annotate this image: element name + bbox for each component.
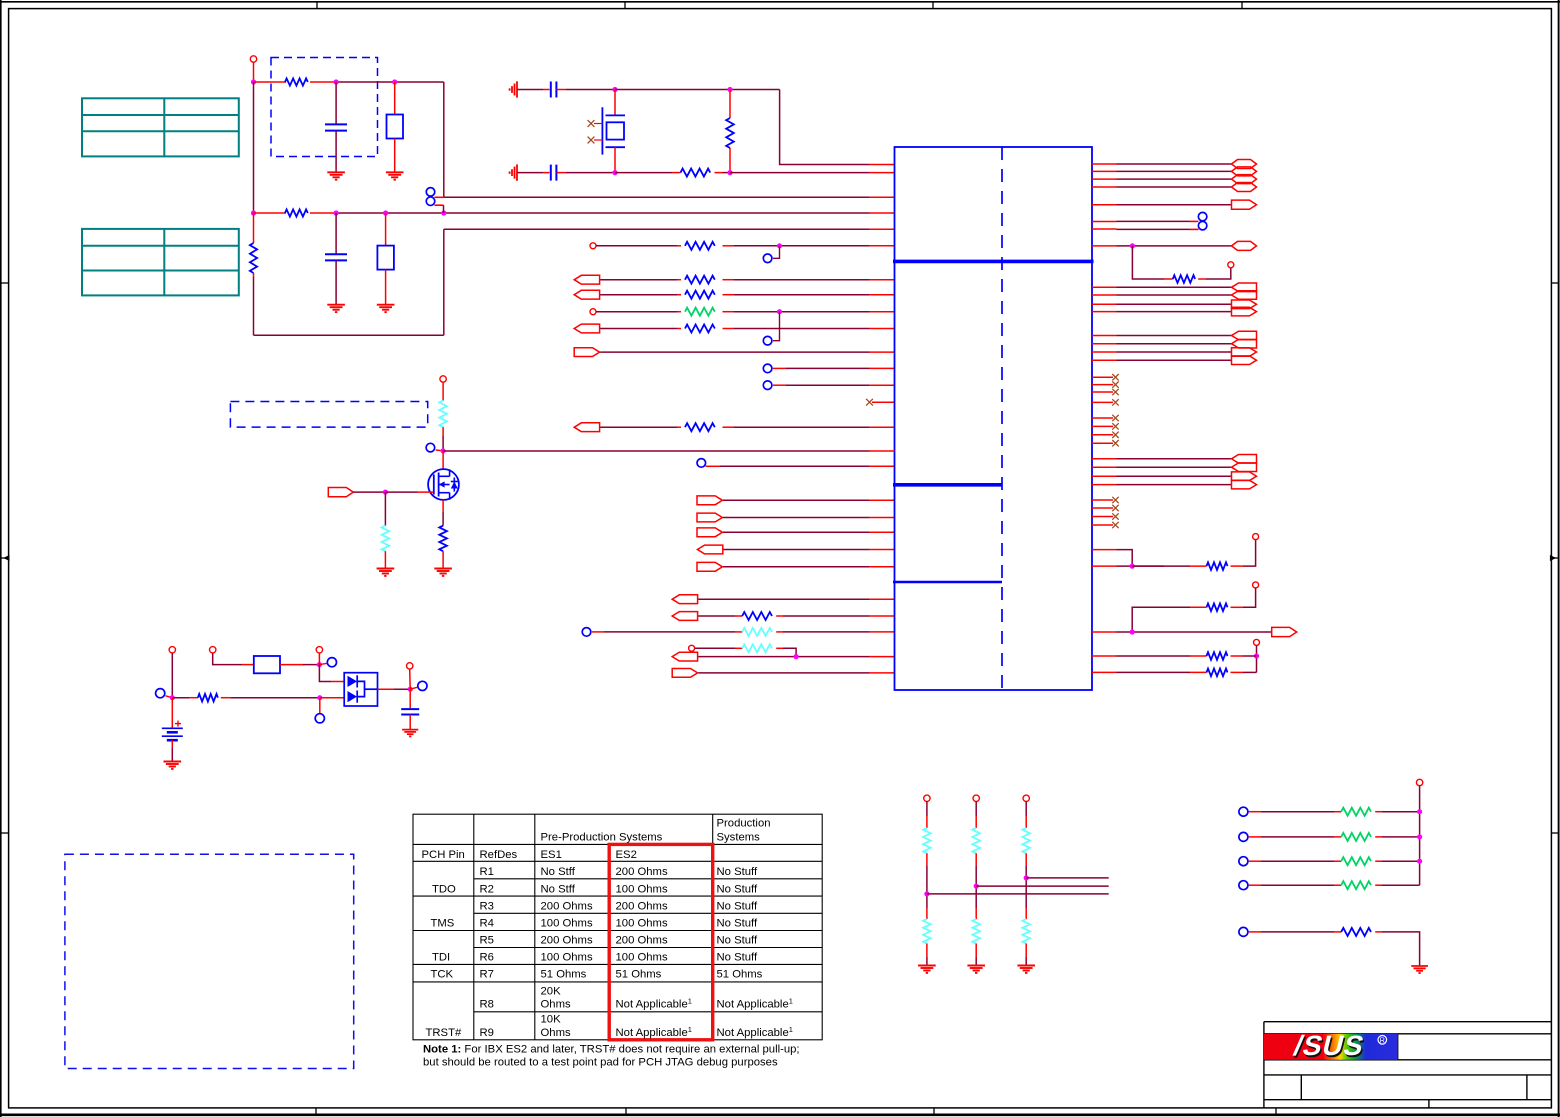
- zone tick right lower: [1551, 832, 1558, 834]
- port arrow (out) SIG_C3: [697, 528, 722, 537]
- svg-text:200 Ohms: 200 Ohms: [541, 935, 593, 947]
- wire: [776, 631, 783, 633]
- junction: [170, 695, 175, 700]
- wire: [723, 245, 735, 247]
- capacitor C4: [551, 165, 557, 181]
- test point bubble below: [315, 714, 324, 723]
- test point small circle row 648: [689, 645, 695, 651]
- zone tick left lower: [1, 832, 9, 834]
- capacitor C_bot lead: [335, 213, 337, 253]
- wire stub: [166, 696, 173, 698]
- wire: [596, 311, 677, 313]
- capacitor C_top lead: [335, 82, 337, 124]
- dual diode D1: [344, 673, 377, 706]
- IC U1 section divider 3: [893, 581, 1002, 583]
- wire: [723, 172, 730, 174]
- wire: [517, 172, 543, 174]
- wire: [600, 328, 677, 330]
- wire: [706, 465, 720, 467]
- svg-text:100 Ohms: 100 Ohms: [616, 883, 668, 895]
- ground: [402, 730, 418, 737]
- junction: [974, 884, 979, 889]
- wire: [975, 802, 977, 817]
- bus wire 3: [927, 893, 1109, 895]
- svg-text:51 Ohms: 51 Ohms: [717, 969, 763, 981]
- svg-text:200 Ohms: 200 Ohms: [616, 901, 668, 913]
- svg-text:200 Ohms: 200 Ohms: [616, 866, 668, 878]
- pin wire right group2: [1092, 359, 1117, 361]
- wire: [434, 196, 443, 198]
- svg-text:51 Ohms: 51 Ohms: [541, 969, 587, 981]
- ground: [377, 305, 395, 312]
- resistor array 2 (green): [1341, 833, 1371, 841]
- wire: [253, 277, 255, 335]
- node VBAT junction: [251, 79, 256, 84]
- wire to PCH pin 1: [780, 90, 870, 165]
- pin wire right group1: [1092, 294, 1117, 296]
- resistor R_bot leads: [254, 212, 287, 214]
- wire: [171, 740, 173, 748]
- pin wire right q37: [1092, 671, 1117, 673]
- component box B2: [377, 246, 394, 270]
- svg-text:R9: R9: [480, 1027, 494, 1039]
- no-connect pin right: [1092, 442, 1113, 444]
- pin wire right q35: [1092, 631, 1117, 633]
- svg-text:No Stuff: No Stuff: [717, 935, 758, 947]
- ASUS wordmark: [1290, 1030, 1369, 1063]
- wire source: [442, 500, 444, 512]
- wire: [1243, 588, 1256, 607]
- resistor R_q8: [1173, 275, 1195, 283]
- note table 1 (teal): [82, 98, 239, 156]
- ES2 red highlight box: [609, 844, 713, 1039]
- svg-text:R8: R8: [480, 999, 494, 1011]
- junction: [1024, 875, 1029, 880]
- wire: [1025, 853, 1027, 866]
- wire: [592, 631, 604, 633]
- no-connect pin stub: [866, 399, 873, 406]
- crystal Y1: [602, 107, 625, 154]
- pin wire right q33: [1092, 549, 1117, 551]
- ground: [1017, 966, 1035, 973]
- pin wire right q3: [1092, 178, 1117, 180]
- bidirectional port hexagon 2: [1232, 167, 1257, 176]
- zone tick right upper: [1551, 282, 1558, 284]
- power terminal: [1253, 534, 1259, 540]
- resistor SIG_A3 series: [685, 325, 715, 333]
- svg-text:R4: R4: [480, 918, 494, 930]
- wire: [1249, 931, 1261, 933]
- wire: [442, 427, 444, 436]
- ground: [327, 172, 345, 179]
- test point bubble: [426, 443, 435, 452]
- power terminal: [440, 376, 446, 382]
- capacitor C_top: [325, 124, 347, 130]
- svg-text:100 Ohms: 100 Ohms: [616, 918, 668, 930]
- junction: [251, 210, 256, 215]
- bus wire 1: [1026, 877, 1109, 879]
- ground: [434, 569, 452, 576]
- pin wire right group2: [1092, 343, 1117, 345]
- no-connect pin right: [1092, 516, 1113, 518]
- svg-text:Not Applicable1: Not Applicable1: [717, 1025, 793, 1039]
- port arrow (in) SIG_A3: [574, 324, 599, 333]
- table text: [422, 818, 793, 1040]
- connector bubble: [763, 336, 772, 345]
- zone tick bottom 2: [625, 1108, 627, 1115]
- wire: [773, 367, 786, 369]
- bus wire 2: [976, 885, 1108, 887]
- wire: [320, 697, 344, 699]
- junction: [441, 210, 446, 215]
- svg-text:No Stuff: No Stuff: [717, 951, 758, 963]
- bidirectional port hexagon 1: [1232, 160, 1257, 169]
- resistor R_gate vertical (cyan): [382, 526, 390, 552]
- power terminal: [1228, 262, 1234, 268]
- pin wire right group3: [1092, 484, 1117, 486]
- note table 2 (teal): [82, 229, 239, 296]
- wire long to PCH pin 451: [443, 450, 869, 452]
- dashed note box bottom-left: [65, 854, 354, 1068]
- port arrow (in) stacked: [1232, 331, 1257, 340]
- wire vertical rail: [1419, 786, 1421, 886]
- wire: [773, 384, 786, 386]
- wire: [615, 172, 672, 174]
- IC U1 centre dashed line: [1001, 147, 1003, 690]
- test point bubble: [156, 689, 165, 698]
- ground (rotated) G3: [510, 81, 517, 97]
- battery plus sign: [175, 721, 181, 727]
- power terminal: [407, 663, 413, 669]
- svg-text:TRST#: TRST#: [426, 1027, 462, 1039]
- power terminal: [1254, 639, 1260, 645]
- wire: [517, 89, 543, 91]
- resistor SIG_A1 series: [685, 276, 715, 284]
- pin wire right group1: [1092, 303, 1117, 305]
- resistor R_left vertical: [250, 243, 257, 273]
- pin wire right q2: [1092, 170, 1117, 172]
- wire: [975, 944, 977, 958]
- svg-text:200 Ohms: 200 Ohms: [616, 935, 668, 947]
- connector bubble row 385: [763, 381, 772, 390]
- port arrow (in) SIG_C4: [697, 545, 722, 554]
- junction: [317, 695, 322, 700]
- zone tick top 1: [316, 2, 318, 9]
- connector bubble row 368: [763, 364, 772, 373]
- wire stub from bubble 2: [434, 204, 443, 206]
- port arrow (out) SIG_C5: [697, 562, 722, 571]
- wire: [723, 279, 735, 281]
- wire: [556, 89, 566, 91]
- svg-text:No Stuff: No Stuff: [717, 918, 758, 930]
- junction: [408, 687, 413, 692]
- zone tick bottom 1: [315, 1108, 317, 1115]
- wire: [319, 665, 331, 682]
- zone tick top 3: [932, 2, 934, 9]
- junction: [1254, 653, 1259, 658]
- title block lines: [1264, 1022, 1552, 1108]
- wire to PCH pin 2: [730, 172, 870, 174]
- wire: [723, 294, 735, 296]
- svg-text:Note 1: For IBX ES2 and later,: Note 1: For IBX ES2 and later, TRST# doe…: [423, 1044, 800, 1056]
- resistor R_xtal vertical: [726, 118, 734, 148]
- pin wire right q34: [1092, 565, 1117, 567]
- svg-text:100 Ohms: 100 Ohms: [616, 951, 668, 963]
- svg-text:TMS: TMS: [431, 918, 455, 930]
- wire: [600, 426, 677, 428]
- svg-text:R5: R5: [480, 935, 494, 947]
- resistor R_osc: [681, 169, 711, 177]
- resistor R_top: [285, 78, 308, 85]
- wire to PCH pin 4: [336, 212, 870, 214]
- junction: [441, 448, 446, 453]
- test point TP_CLK: [590, 243, 596, 249]
- no-connect pin right: [1092, 384, 1113, 386]
- test point bubble row 465: [697, 459, 706, 468]
- wire: [723, 517, 870, 519]
- svg-text:100 Ohms: 100 Ohms: [541, 951, 593, 963]
- port arrow (out) stacked: [1232, 307, 1257, 316]
- wire stub: [773, 246, 780, 258]
- test point bubble: [418, 681, 427, 690]
- wire: [698, 672, 869, 674]
- wire stub: [436, 449, 443, 452]
- wire to PCH pin 3: [444, 196, 870, 198]
- no-connect x on crystal case pin 1: [594, 123, 602, 125]
- junction: [1130, 564, 1135, 569]
- crystal Y1 bottom lead: [614, 147, 616, 172]
- wire: [171, 653, 173, 698]
- wire: [1249, 811, 1261, 813]
- resistor rail 3 upper (cyan): [1022, 828, 1030, 854]
- svg-text:Not Applicable1: Not Applicable1: [616, 997, 692, 1011]
- svg-text:TDO: TDO: [432, 883, 456, 895]
- pin wire right group3: [1092, 466, 1117, 468]
- junction: [612, 170, 617, 175]
- resistor rail 3 lower (cyan): [1022, 919, 1030, 943]
- no-connect pin right: [1092, 391, 1113, 393]
- component box fuse F1: [254, 656, 280, 673]
- junction: [1130, 629, 1135, 634]
- wire: [394, 139, 396, 173]
- port arrow (in) SIG_A1: [574, 275, 599, 284]
- zone tick top 2: [624, 2, 626, 9]
- capacitor C_bot: [325, 254, 347, 260]
- svg-text:Production: Production: [717, 818, 771, 830]
- wire: [409, 669, 412, 689]
- bidirectional port hexagon 4: [1232, 183, 1257, 192]
- port arrow (out) stacked: [1232, 480, 1257, 489]
- wire bottom loop: [254, 334, 444, 336]
- wire: [409, 715, 411, 730]
- registered mark: [1378, 1036, 1387, 1045]
- wire: [442, 382, 444, 400]
- resistor R_D3: [742, 628, 772, 636]
- resistor rail 1 upper (cyan): [923, 828, 931, 854]
- port arrow (in) SIG_D1: [672, 595, 697, 604]
- wire: [1025, 944, 1027, 958]
- transistor Q1 MOSFET: [428, 469, 459, 500]
- ground: [918, 966, 936, 973]
- svg-text:Ohms: Ohms: [541, 999, 571, 1011]
- no-connect pin right: [1092, 417, 1113, 419]
- junction: [727, 170, 732, 175]
- test point TP_TMS: [590, 309, 596, 315]
- component box B1 lead: [394, 82, 396, 115]
- svg-text:TDI: TDI: [432, 951, 450, 963]
- test point bubble array 4: [1239, 881, 1248, 890]
- junction: [334, 79, 339, 84]
- svg-text:100 Ohms: 100 Ohms: [541, 918, 593, 930]
- pin wire right group1: [1092, 311, 1117, 313]
- no-connect pin right: [1092, 499, 1113, 501]
- svg-text:TCK: TCK: [431, 969, 454, 981]
- wire: [926, 908, 928, 919]
- junction: [727, 87, 732, 92]
- port arrow (out) stacked: [1232, 356, 1257, 365]
- wire net right side down: [443, 82, 445, 197]
- port arrow (in) stacked: [1232, 291, 1257, 300]
- resistor TP_TMS series: [685, 308, 715, 316]
- wire: [926, 944, 928, 958]
- wire: [723, 328, 735, 330]
- junction: [317, 662, 322, 667]
- wire: [695, 647, 735, 649]
- op-amp / IC U1 PCH block: [895, 147, 1093, 690]
- capacitor C3: [551, 82, 557, 98]
- IC U1 section divider 2: [893, 483, 1002, 487]
- svg-text:R3: R3: [480, 901, 494, 913]
- junction: [612, 87, 617, 92]
- wire left rail: [253, 82, 255, 213]
- wire: [1132, 607, 1164, 632]
- port arrow (out) SIG_C1: [697, 496, 722, 505]
- svg-text:Not Applicable1: Not Applicable1: [717, 997, 793, 1011]
- svg-text:Pre-Production Systems: Pre-Production Systems: [541, 832, 663, 844]
- svg-text:R2: R2: [480, 883, 494, 895]
- svg-text:but should be routed to a test: but should be routed to a test point pad…: [423, 1057, 778, 1069]
- svg-text:51 Ohms: 51 Ohms: [616, 969, 662, 981]
- resistor R_bat: [198, 694, 218, 702]
- zone tick bottom 4: [1275, 1108, 1277, 1115]
- junction: [334, 210, 339, 215]
- test point bubble row 632: [582, 628, 591, 637]
- test point bubble single: [1239, 927, 1248, 936]
- zone tick left upper: [1, 282, 9, 284]
- dashed note box mid-left: [230, 402, 427, 428]
- wire: [1375, 860, 1382, 862]
- wire: [1249, 836, 1261, 838]
- pin wire right q7: [1092, 228, 1117, 230]
- pin wire right q5: [1092, 204, 1117, 206]
- power terminal rail 3: [1023, 795, 1029, 801]
- port arrow (in) SIG_A2: [574, 290, 599, 299]
- wire: [1025, 802, 1027, 817]
- wire: [1231, 565, 1244, 567]
- svg-text:No Stuff: No Stuff: [717, 883, 758, 895]
- connector bubbles J1: [426, 188, 435, 197]
- no-connect pin right: [1092, 425, 1113, 427]
- no-connect pin right: [1092, 434, 1113, 436]
- ground: [967, 966, 985, 973]
- junction: [924, 891, 929, 896]
- resistor array 1 (green): [1341, 808, 1371, 816]
- wire to PCH pin 5: [444, 228, 870, 230]
- svg-text:ES1: ES1: [541, 849, 562, 861]
- wire: [975, 908, 977, 919]
- resistor rail 1 lower (cyan): [923, 919, 931, 943]
- no-connect pin right: [1092, 524, 1113, 526]
- pin wire right group2: [1092, 351, 1117, 353]
- wire: [776, 615, 783, 617]
- wire: [600, 294, 677, 296]
- power terminal P1: [250, 56, 256, 62]
- wire: [1375, 811, 1382, 813]
- test point bubble array 3: [1239, 857, 1248, 866]
- power terminal array: [1416, 779, 1422, 785]
- ground: [327, 305, 345, 312]
- resistor R_D4: [742, 644, 772, 652]
- resistor R_osc leads: [672, 172, 681, 174]
- no-connect pin right: [1092, 507, 1113, 509]
- svg-text:/SUS: /SUS: [1291, 1030, 1368, 1062]
- wire stub: [773, 312, 780, 341]
- test point bubble array 2: [1239, 832, 1248, 841]
- wire: [1375, 836, 1382, 838]
- wire: [600, 279, 677, 281]
- resistor SIG_A2 series: [685, 291, 715, 299]
- wire: [319, 698, 321, 713]
- port arrow (out) SIG_C2: [697, 513, 722, 522]
- wire stub: [410, 687, 417, 689]
- wire: [1198, 278, 1206, 280]
- ground: [386, 172, 404, 179]
- ground: [1411, 966, 1428, 973]
- port arrow (out) stacked: [1232, 472, 1257, 481]
- resistor TP_CLK series: [685, 242, 715, 250]
- wire: [1249, 884, 1261, 886]
- no-connect x on crystal case pin 2: [594, 139, 602, 141]
- svg-text:200 Ohms: 200 Ohms: [541, 901, 593, 913]
- resistor R_D2: [742, 612, 772, 620]
- wire: [723, 311, 735, 313]
- pin wire right group3: [1092, 458, 1117, 460]
- resistor SIG_A5 series: [685, 423, 715, 431]
- resistor R_xtal vertical leads: [729, 90, 731, 119]
- port arrow (in) stacked: [1232, 339, 1257, 348]
- svg-text:20K: 20K: [541, 986, 562, 998]
- resistor R_top leads: [254, 81, 287, 83]
- wire: [378, 688, 395, 690]
- svg-text:R7: R7: [480, 969, 494, 981]
- resistor array 4 (green): [1341, 881, 1371, 889]
- junction: [383, 490, 388, 495]
- power terminal top: [210, 647, 216, 653]
- no-connect pin right: [1092, 401, 1113, 403]
- power terminal above junction: [316, 647, 322, 653]
- crystal Y1 top lead: [614, 90, 616, 116]
- bidirectional port hexagon q8: [1232, 241, 1257, 250]
- svg-text:No Stuff: No Stuff: [717, 866, 758, 878]
- wire: [442, 451, 444, 470]
- svg-text:Not Applicable1: Not Applicable1: [616, 1025, 692, 1039]
- zone tick top 4: [1241, 2, 1243, 9]
- resistor R_q36: [1207, 652, 1228, 660]
- resistor R_bot: [285, 209, 308, 216]
- pin wire right group2: [1092, 335, 1117, 337]
- wire: [723, 531, 870, 533]
- svg-text:R: R: [1380, 1038, 1385, 1045]
